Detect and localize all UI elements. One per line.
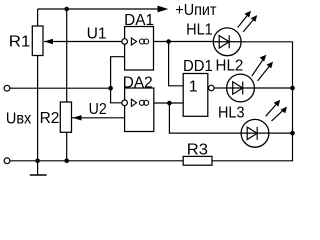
svg-text:1: 1 xyxy=(189,79,198,96)
wire R1 top stub xyxy=(37,9,39,26)
junction node HL2 rail xyxy=(290,86,295,91)
svg-text:R1: R1 xyxy=(9,34,31,51)
wire U2 from R2 wiper to DA2 xyxy=(72,117,125,119)
wire Uvx input xyxy=(10,87,111,89)
DA1 triangle symbol xyxy=(131,38,136,45)
svg-text:DA1: DA1 xyxy=(124,12,154,29)
svg-text:U1: U1 xyxy=(87,26,107,43)
junction node HL3 rail xyxy=(290,131,295,136)
wire node to DA1 noninv input xyxy=(111,57,125,88)
wire DD1 output to HL2 xyxy=(214,87,227,89)
junction node DA1 output xyxy=(166,39,171,44)
resistor R3 body xyxy=(183,156,212,165)
wire R1 bottom stub xyxy=(37,56,39,162)
wire R2 top branch xyxy=(66,9,68,102)
DA1 inverting input bubble xyxy=(122,39,128,45)
wire HL2 cathode to right rail xyxy=(254,87,292,89)
junction node Uvx split xyxy=(108,86,113,91)
svg-text:R2: R2 xyxy=(40,110,60,127)
resistor R1 (potentiometer body) xyxy=(32,26,43,56)
wire DA2 out to HL3 xyxy=(169,103,241,133)
svg-text:+Uпит: +Uпит xyxy=(175,2,217,19)
wire top rail xyxy=(38,8,158,10)
junction node DA2 output xyxy=(167,101,172,106)
wire HL3 cathode to right rail xyxy=(269,132,293,134)
junction node top rail / R2 xyxy=(64,7,69,12)
svg-text:DA2: DA2 xyxy=(123,74,153,91)
+Upit supply arrowhead xyxy=(158,6,169,13)
ground xyxy=(37,161,39,175)
DA1 infinity symbol xyxy=(139,39,144,44)
input terminal common xyxy=(4,158,10,164)
wire HL1 cathode to right rail xyxy=(241,41,293,43)
input terminal Uvx xyxy=(4,85,10,91)
logic gate DD1 body xyxy=(183,74,208,117)
svg-text:U2: U2 xyxy=(89,101,107,118)
svg-text:HL2: HL2 xyxy=(216,58,244,75)
svg-text:Uвх: Uвх xyxy=(6,111,31,128)
DA2 inverting input bubble xyxy=(122,100,128,106)
wire DA1 output to HL1 xyxy=(154,41,214,43)
wire R2 bottom stub xyxy=(66,132,68,161)
svg-text:DD1: DD1 xyxy=(183,58,213,75)
resistor R2 (potentiometer body) xyxy=(60,102,71,132)
LED HL2 xyxy=(227,57,272,102)
DA2 triangle symbol xyxy=(131,99,136,106)
DD1 output bubble xyxy=(209,85,215,91)
op-amp DA2 body xyxy=(125,88,154,132)
op-amp DA1 body xyxy=(125,27,154,71)
LED HL1 xyxy=(213,13,255,56)
wire DA1 out to DD1 upper input xyxy=(169,42,184,86)
junction node ground rail R2 xyxy=(64,159,69,164)
wire node to DA2 inv input xyxy=(111,88,122,103)
svg-text:R3: R3 xyxy=(187,142,208,159)
DA2 infinity symbol xyxy=(139,100,144,105)
svg-text:HL3: HL3 xyxy=(218,105,245,122)
wire bottom rail xyxy=(10,160,183,162)
wire DA2 output to DD1 lower input xyxy=(154,102,183,104)
R2 wiper arrowhead xyxy=(73,115,82,120)
wire U1 from R1 wiper to DA1 xyxy=(44,41,122,43)
svg-text:HL1: HL1 xyxy=(186,22,213,39)
R1 wiper arrowhead xyxy=(44,39,53,44)
wire right rail xyxy=(212,42,293,161)
LED HL3 xyxy=(241,102,285,148)
junction node ground rail R1 xyxy=(35,159,40,164)
